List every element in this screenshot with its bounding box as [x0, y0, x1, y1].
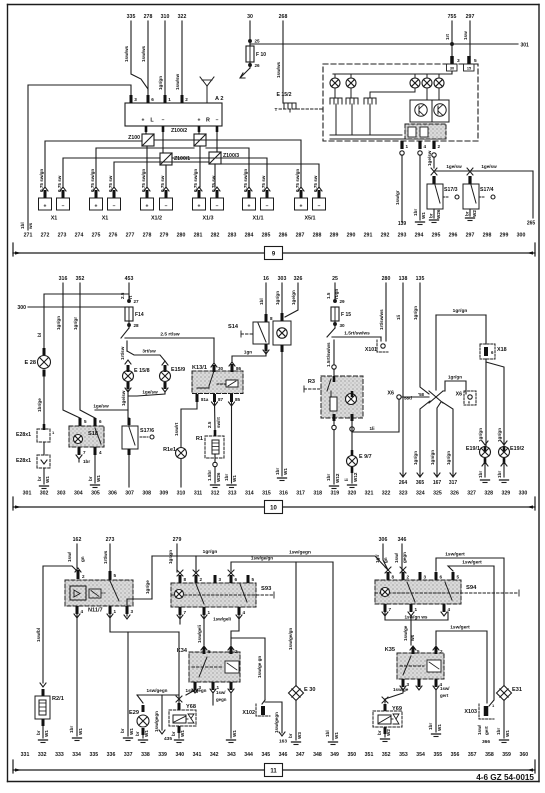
- svg-text:335: 335: [127, 14, 136, 20]
- svg-text:1: 1: [168, 97, 171, 102]
- svg-text:334: 334: [72, 752, 81, 758]
- svg-text:321: 321: [365, 491, 374, 497]
- svg-text:E19/2: E19/2: [510, 446, 524, 452]
- svg-text:280: 280: [177, 233, 186, 239]
- svg-text:1.5br: 1.5br: [207, 470, 212, 481]
- svg-text:1.5rt/sw/ws: 1.5rt/sw/ws: [344, 331, 370, 337]
- svg-text:1sw/: 1sw/: [477, 724, 482, 735]
- svg-text:+: +: [198, 204, 201, 210]
- svg-text:348: 348: [313, 752, 322, 758]
- svg-text:0.75 sw/gn: 0.75 sw/gn: [243, 169, 248, 192]
- svg-text:br: br: [429, 213, 434, 218]
- svg-text:1sw/ge gn: 1sw/ge gn: [257, 656, 262, 678]
- svg-text:br: br: [36, 730, 41, 735]
- svg-text:1sw/ge: 1sw/ge: [403, 625, 408, 641]
- svg-text:5: 5: [252, 577, 255, 582]
- svg-text:1gr/gn: 1gr/gn: [448, 375, 462, 380]
- svg-text:307: 307: [125, 491, 134, 497]
- svg-text:0.75 sw: 0.75 sw: [261, 175, 266, 192]
- svg-text:+: +: [248, 204, 251, 210]
- svg-text:+: +: [95, 204, 98, 210]
- svg-text:1: 1: [415, 607, 418, 612]
- svg-text:6: 6: [468, 401, 470, 405]
- svg-text:1sw/: 1sw/: [394, 552, 399, 563]
- svg-text:br: br: [135, 731, 140, 736]
- svg-text:290: 290: [347, 233, 356, 239]
- svg-text:br: br: [377, 730, 382, 735]
- svg-text:1sw/ws: 1sw/ws: [124, 45, 129, 62]
- svg-text:279: 279: [160, 233, 169, 239]
- svg-text:287: 287: [296, 233, 305, 239]
- svg-text:0.75 sw: 0.75 sw: [313, 175, 318, 192]
- svg-text:279: 279: [173, 537, 182, 543]
- svg-text:X101: X101: [365, 347, 377, 353]
- svg-text:346: 346: [398, 537, 407, 543]
- svg-text:W1: W1: [129, 728, 134, 735]
- svg-text:353: 353: [399, 752, 408, 758]
- svg-text:7: 7: [184, 610, 187, 615]
- svg-text:1bl: 1bl: [325, 730, 330, 737]
- svg-text:8: 8: [270, 316, 273, 321]
- svg-text:285: 285: [262, 233, 271, 239]
- svg-text:R3: R3: [308, 379, 315, 385]
- svg-text:0.75 sw: 0.75 sw: [108, 175, 113, 192]
- svg-text:1rt/sw/ws: 1rt/sw/ws: [379, 309, 384, 330]
- svg-text:303: 303: [278, 276, 287, 282]
- svg-text:W12: W12: [353, 472, 358, 482]
- svg-text:1gr/gn: 1gr/gn: [413, 306, 418, 320]
- svg-text:352: 352: [382, 752, 391, 758]
- svg-text:ws: ws: [28, 222, 33, 230]
- svg-text:X103: X103: [464, 709, 477, 715]
- svg-text:273: 273: [58, 233, 67, 239]
- svg-text:1sw/: 1sw/: [440, 686, 450, 691]
- svg-text:317: 317: [449, 480, 458, 486]
- svg-text:–: –: [62, 204, 65, 210]
- svg-text:1sw/ge/gn: 1sw/ge/gn: [251, 556, 273, 561]
- svg-text:289: 289: [330, 233, 339, 239]
- svg-text:E 9/7: E 9/7: [359, 454, 372, 460]
- svg-text:319: 319: [330, 491, 339, 497]
- svg-text:0.75 sw: 0.75 sw: [160, 175, 165, 192]
- svg-text:1br: 1br: [428, 723, 433, 730]
- svg-text:K35: K35: [385, 647, 395, 653]
- svg-text:gegn: gegn: [402, 552, 407, 563]
- svg-text:281: 281: [194, 233, 203, 239]
- svg-text:355: 355: [433, 752, 442, 758]
- svg-text:303: 303: [57, 491, 66, 497]
- svg-text:366: 366: [482, 739, 490, 745]
- svg-text:S93: S93: [261, 586, 272, 592]
- svg-text:1sw/gr: 1sw/gr: [395, 190, 400, 205]
- svg-text:K34: K34: [177, 648, 188, 654]
- svg-text:317: 317: [296, 491, 305, 497]
- svg-text:1bl: 1bl: [20, 222, 25, 229]
- svg-text:268: 268: [279, 14, 288, 20]
- svg-text:F14: F14: [135, 312, 144, 318]
- svg-text:2: 2: [438, 144, 441, 149]
- svg-text:81a: 81a: [201, 397, 209, 402]
- svg-text:1sw/gegn: 1sw/gegn: [147, 688, 168, 693]
- svg-text:gegn: gegn: [216, 697, 227, 702]
- svg-text:6: 6: [440, 575, 443, 580]
- svg-text:F 10: F 10: [256, 52, 266, 58]
- svg-text:1br: 1br: [275, 468, 280, 475]
- svg-text:3: 3: [424, 575, 427, 580]
- svg-text:163: 163: [279, 739, 287, 745]
- svg-text:30: 30: [218, 366, 224, 371]
- svg-text:W1: W1: [421, 212, 426, 219]
- svg-text:354: 354: [416, 752, 425, 758]
- svg-text:329: 329: [501, 491, 510, 497]
- svg-text:li: li: [344, 478, 349, 481]
- svg-text:gert: gert: [440, 693, 449, 698]
- svg-text:284: 284: [245, 233, 254, 239]
- svg-text:1br: 1br: [413, 209, 418, 216]
- svg-text:Z100/2: Z100/2: [171, 128, 187, 134]
- svg-text:W1: W1: [144, 730, 149, 737]
- svg-text:E28x1: E28x1: [16, 432, 31, 438]
- svg-text:310: 310: [177, 491, 186, 497]
- svg-text:293: 293: [398, 233, 407, 239]
- svg-text:1br: 1br: [496, 728, 501, 735]
- svg-text:276: 276: [109, 233, 118, 239]
- svg-text:0.75 sw/gn: 0.75 sw/gn: [90, 169, 95, 192]
- svg-text:322: 322: [178, 14, 187, 20]
- svg-text:338: 338: [141, 752, 150, 758]
- svg-text:1ge/sw: 1ge/sw: [481, 164, 497, 169]
- svg-text:W1: W1: [334, 732, 339, 739]
- svg-text:357: 357: [468, 752, 477, 758]
- svg-text:E 28: E 28: [24, 360, 36, 366]
- svg-text:bl: bl: [37, 333, 42, 337]
- svg-text:1gr/gn: 1gr/gn: [275, 291, 280, 305]
- svg-text:7: 7: [389, 607, 392, 612]
- svg-text:'58: '58: [418, 392, 424, 397]
- svg-text:28: 28: [134, 323, 140, 328]
- svg-text:323: 323: [399, 491, 408, 497]
- svg-text:1.5: 1.5: [326, 292, 331, 299]
- svg-text:313: 313: [228, 491, 237, 497]
- svg-text:337: 337: [124, 752, 133, 758]
- svg-text:S17/6: S17/6: [140, 428, 154, 434]
- svg-text:1sw/gert: 1sw/gert: [450, 625, 470, 631]
- svg-text:0.75 sw/gn: 0.75 sw/gn: [193, 169, 198, 192]
- svg-text:58d: 58d: [404, 396, 412, 401]
- svg-text:1br: 1br: [224, 474, 229, 481]
- svg-text:R1: R1: [196, 436, 203, 442]
- svg-text:X5/1: X5/1: [304, 216, 315, 222]
- svg-text:br: br: [37, 476, 42, 481]
- svg-text:1sw/ws: 1sw/ws: [276, 61, 281, 78]
- svg-text:30: 30: [450, 67, 454, 71]
- svg-text:1gn: 1gn: [244, 350, 252, 355]
- svg-text:2: 2: [185, 97, 188, 102]
- svg-text:W1: W1: [232, 730, 237, 737]
- svg-text:1rt: 1rt: [445, 34, 450, 40]
- svg-text:X1/3: X1/3: [202, 216, 213, 222]
- svg-text:1sw/: 1sw/: [216, 690, 226, 695]
- svg-text:0.75 sw/gn: 0.75 sw/gn: [39, 169, 44, 192]
- svg-text:1sw/gert: 1sw/gert: [462, 560, 482, 566]
- svg-text:344: 344: [244, 752, 253, 758]
- svg-text:br: br: [120, 728, 125, 733]
- svg-text:346: 346: [279, 752, 288, 758]
- svg-text:322: 322: [382, 491, 391, 497]
- svg-text:139: 139: [398, 221, 407, 227]
- svg-text:4: 4: [448, 607, 451, 612]
- svg-text:1sw: 1sw: [463, 31, 468, 40]
- svg-text:312: 312: [211, 491, 220, 497]
- svg-text:E 15/2: E 15/2: [277, 92, 292, 98]
- svg-text:R1e1: R1e1: [163, 447, 176, 453]
- svg-text:ws: ws: [410, 634, 415, 642]
- svg-text:3rt/sw: 3rt/sw: [142, 349, 156, 354]
- svg-text:1sw/sw: 1sw/sw: [175, 73, 180, 90]
- svg-text:1gr/gn: 1gr/gn: [413, 451, 418, 465]
- svg-text:332: 332: [38, 752, 47, 758]
- svg-text:1sw/gegn: 1sw/gegn: [154, 711, 159, 732]
- svg-text:W1: W1: [45, 476, 50, 483]
- svg-text:S14: S14: [228, 324, 239, 330]
- svg-text:25: 25: [255, 39, 261, 44]
- svg-text:85: 85: [235, 397, 241, 402]
- svg-text:br: br: [88, 476, 93, 481]
- svg-text:+: +: [44, 204, 47, 210]
- svg-text:86: 86: [236, 366, 242, 371]
- svg-text:1: 1: [406, 144, 409, 149]
- svg-text:2: 2: [235, 649, 238, 654]
- svg-text:4-6 GZ 54-0015: 4-6 GZ 54-0015: [476, 773, 534, 782]
- svg-text:1gr/gn: 1gr/gn: [56, 316, 61, 330]
- svg-text:278: 278: [143, 233, 152, 239]
- svg-text:F 15: F 15: [341, 312, 351, 318]
- svg-text:2.5: 2.5: [207, 421, 212, 428]
- svg-text:305: 305: [91, 491, 100, 497]
- svg-text:365: 365: [416, 480, 425, 486]
- svg-text:2.5 rt/sw: 2.5 rt/sw: [160, 332, 179, 338]
- svg-text:1br: 1br: [478, 471, 483, 478]
- svg-text:7: 7: [83, 450, 86, 455]
- svg-text:275: 275: [92, 233, 101, 239]
- svg-text:300: 300: [517, 233, 526, 239]
- svg-text:3: 3: [134, 97, 137, 102]
- svg-text:br: br: [288, 733, 293, 738]
- svg-text:5: 5: [474, 58, 477, 64]
- svg-text:300: 300: [17, 305, 26, 311]
- svg-text:–: –: [162, 118, 165, 124]
- svg-text:4: 4: [243, 610, 246, 615]
- svg-text:1sw/rt: 1sw/rt: [174, 422, 179, 436]
- svg-text:297: 297: [466, 233, 475, 239]
- svg-text:273: 273: [106, 537, 115, 543]
- svg-text:1ge/sw: 1ge/sw: [93, 404, 109, 409]
- svg-text:1gr/gn: 1gr/gn: [497, 428, 502, 442]
- svg-text:W1: W1: [283, 468, 288, 475]
- svg-text:360: 360: [519, 752, 528, 758]
- svg-text:274: 274: [75, 233, 84, 239]
- svg-text:294: 294: [415, 233, 424, 239]
- svg-text:1bl: 1bl: [259, 298, 264, 305]
- svg-text:Y68: Y68: [186, 704, 196, 710]
- svg-text:167: 167: [433, 480, 442, 486]
- svg-text:–: –: [216, 204, 219, 210]
- svg-text:Z100: Z100: [128, 135, 140, 141]
- svg-text:356: 356: [451, 752, 460, 758]
- svg-text:1sw/geli: 1sw/geli: [197, 625, 202, 643]
- svg-text:1br: 1br: [326, 474, 331, 481]
- svg-text:X6: X6: [456, 392, 462, 398]
- svg-text:336: 336: [107, 752, 116, 758]
- svg-text:W26: W26: [216, 472, 221, 482]
- svg-text:1rt/sw: 1rt/sw: [120, 346, 125, 360]
- svg-text:6: 6: [235, 577, 238, 582]
- svg-text:11: 11: [270, 769, 277, 775]
- svg-text:A 2: A 2: [215, 96, 224, 102]
- svg-text:0.75 sw/gn: 0.75 sw/gn: [141, 169, 146, 192]
- svg-text:–: –: [165, 204, 168, 210]
- svg-text:359: 359: [502, 752, 511, 758]
- svg-text:298: 298: [483, 233, 492, 239]
- svg-text:272: 272: [41, 233, 50, 239]
- svg-text:299: 299: [500, 233, 509, 239]
- svg-text:W1: W1: [232, 475, 237, 482]
- svg-text:350: 350: [347, 752, 356, 758]
- svg-text:1gr/gr: 1gr/gr: [73, 317, 78, 330]
- svg-text:sw/rt: sw/rt: [216, 417, 221, 428]
- svg-text:E 15/8: E 15/8: [134, 368, 150, 374]
- svg-text:E31: E31: [512, 687, 522, 693]
- svg-text:S17/3: S17/3: [444, 187, 458, 193]
- svg-text:1li: 1li: [369, 426, 374, 431]
- svg-text:X18: X18: [497, 347, 507, 353]
- svg-text:331: 331: [21, 752, 30, 758]
- svg-text:0.75 sw/gn: 0.75 sw/gn: [295, 169, 300, 192]
- svg-text:X6: X6: [387, 391, 394, 397]
- svg-text:W1: W1: [180, 730, 185, 737]
- svg-text:1ge/sw: 1ge/sw: [121, 390, 126, 406]
- svg-text:1ge/gn: 1ge/gn: [291, 290, 296, 305]
- svg-text:292: 292: [381, 233, 390, 239]
- svg-text:138: 138: [399, 276, 408, 282]
- svg-text:5: 5: [114, 573, 117, 578]
- svg-text:W1: W1: [44, 730, 49, 737]
- svg-text:324: 324: [416, 491, 425, 497]
- svg-text:gn: gn: [383, 557, 388, 563]
- svg-text:342: 342: [210, 752, 219, 758]
- svg-text:W2: W2: [472, 210, 477, 217]
- svg-text:27: 27: [134, 299, 140, 304]
- svg-text:316: 316: [59, 276, 68, 282]
- svg-text:282: 282: [211, 233, 220, 239]
- svg-text:325: 325: [433, 491, 442, 497]
- svg-text:1sw/gegn: 1sw/gegn: [274, 712, 279, 733]
- svg-text:1br: 1br: [69, 726, 74, 733]
- svg-text:1sw/: 1sw/: [67, 551, 72, 562]
- svg-text:X1/1: X1/1: [252, 216, 263, 222]
- svg-text:288: 288: [313, 233, 322, 239]
- svg-text:283: 283: [228, 233, 237, 239]
- svg-text:1gr/gn: 1gr/gn: [158, 76, 163, 90]
- svg-text:2: 2: [82, 574, 85, 579]
- svg-text:T: T: [275, 107, 278, 113]
- svg-text:335: 335: [89, 752, 98, 758]
- svg-text:1sw/bl: 1sw/bl: [36, 628, 41, 642]
- svg-text:1ge/sw: 1ge/sw: [142, 390, 158, 395]
- svg-text:310: 310: [161, 14, 170, 20]
- svg-text:X1: X1: [102, 216, 109, 222]
- svg-text:358: 358: [485, 752, 494, 758]
- svg-text:4: 4: [99, 450, 102, 455]
- svg-text:0.75 sw: 0.75 sw: [57, 175, 62, 192]
- svg-text:5: 5: [457, 575, 460, 580]
- svg-text:–: –: [318, 204, 321, 210]
- svg-text:4: 4: [424, 144, 427, 149]
- svg-text:326: 326: [294, 276, 303, 282]
- svg-text:1br/ge: 1br/ge: [37, 398, 42, 412]
- svg-text:W1: W1: [437, 724, 442, 731]
- svg-text:+: +: [198, 118, 201, 124]
- svg-text:352: 352: [76, 276, 85, 282]
- svg-text:347: 347: [296, 752, 305, 758]
- svg-text:6: 6: [99, 419, 102, 424]
- svg-text:277: 277: [126, 233, 135, 239]
- svg-text:W26: W26: [436, 209, 441, 219]
- svg-text:+: +: [146, 204, 149, 210]
- svg-text:br: br: [465, 211, 470, 216]
- svg-text:341: 341: [193, 752, 202, 758]
- svg-text:453: 453: [125, 276, 134, 282]
- svg-text:339: 339: [158, 752, 167, 758]
- svg-text:1gr/gn: 1gr/gn: [478, 428, 483, 442]
- svg-text:301: 301: [521, 43, 530, 49]
- svg-text:X1: X1: [51, 216, 58, 222]
- svg-text:3: 3: [131, 609, 134, 614]
- svg-text:1sw/gegn: 1sw/gegn: [289, 550, 311, 556]
- svg-text:302: 302: [40, 491, 49, 497]
- svg-text:1br: 1br: [83, 459, 90, 464]
- svg-text:1gr/: 1gr/: [375, 554, 380, 563]
- svg-text:16: 16: [263, 276, 269, 282]
- svg-text:25: 25: [332, 276, 338, 282]
- svg-text:br: br: [171, 731, 176, 736]
- svg-text:315: 315: [262, 491, 271, 497]
- svg-text:3: 3: [219, 577, 222, 582]
- svg-text:1sw/gert: 1sw/gert: [445, 552, 465, 558]
- svg-text:X1/2: X1/2: [151, 216, 162, 222]
- svg-text:271: 271: [24, 233, 33, 239]
- svg-text:8: 8: [184, 577, 187, 582]
- svg-text:2: 2: [407, 575, 410, 580]
- svg-text:1sw/gegn: 1sw/gegn: [186, 688, 207, 693]
- svg-text:W3: W3: [297, 732, 302, 739]
- svg-text:E28x1: E28x1: [16, 458, 31, 464]
- svg-text:333: 333: [55, 752, 64, 758]
- svg-text:+: +: [300, 204, 303, 210]
- svg-text:5: 5: [84, 419, 87, 424]
- svg-text:296: 296: [449, 233, 458, 239]
- svg-text:R2/1: R2/1: [52, 696, 64, 702]
- svg-text:162: 162: [73, 537, 82, 543]
- svg-text:1ge/sw: 1ge/sw: [427, 150, 432, 166]
- svg-text:–: –: [216, 118, 219, 124]
- svg-text:316: 316: [279, 491, 288, 497]
- svg-text:8: 8: [392, 575, 395, 580]
- svg-text:278: 278: [144, 14, 153, 20]
- svg-text:Z100/1: Z100/1: [174, 156, 190, 162]
- svg-text:gn: gn: [80, 556, 85, 562]
- svg-text:6: 6: [151, 97, 154, 102]
